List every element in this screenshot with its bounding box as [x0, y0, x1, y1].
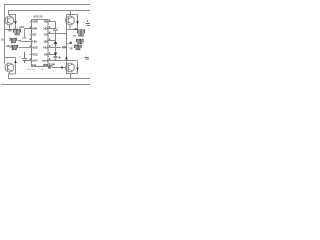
wire bottom of Q1 loop — [5, 29, 16, 31]
arrow Q1 — [14, 21, 16, 24]
wire Q1 source down — [9, 25, 11, 30]
wire Q2 source down — [69, 25, 71, 30]
transistor Q4 bottom-right wires — [67, 57, 78, 79]
svg-text:+5V: +5V — [19, 25, 24, 29]
junction cross — [58, 56, 61, 59]
bottom rails — [1, 79, 90, 85]
resistor R4 ladder — [77, 30, 85, 36]
capacitor C2 mid — [53, 29, 58, 31]
diode D2 down — [54, 53, 58, 56]
svg-text:4xx 1xx: 4xx 1xx — [27, 69, 36, 71]
wire bottom inner rail — [8, 78, 90, 80]
wire right drop from rail2 — [70, 11, 72, 15]
wire D2 cathode bar — [54, 55, 58, 57]
svg-text:HN: HN — [74, 28, 78, 31]
arrow Q2 — [76, 21, 79, 24]
pin number marks left — [30, 26, 31, 28]
diode D1 up — [54, 41, 58, 44]
wire second top rail — [8, 10, 90, 12]
svg-text:HIN: HIN — [32, 26, 36, 30]
wire Q2 left vertical long (phase node) — [66, 15, 68, 58]
resistor R3 ladder — [11, 45, 19, 49]
svg-text:1ar: 1ar — [44, 63, 48, 66]
capacitor C1 left polarized — [22, 52, 28, 63]
wire left edge vertical — [4, 5, 6, 64]
svg-text:VS: VS — [44, 52, 48, 56]
arrow Q3 — [14, 60, 16, 63]
arrow Q4 source — [76, 68, 79, 71]
diode D3 at phase node — [68, 41, 72, 44]
wire left drop from rail2 — [9, 11, 16, 30]
svg-text:VB: VB — [44, 39, 48, 43]
transistor Q1 top-left — [5, 16, 14, 25]
wire LO return to Q4 — [52, 66, 67, 68]
IC pin stubs left — [21, 22, 32, 61]
wire mid vertical — [55, 22, 57, 61]
wire bottom outer rail — [1, 84, 90, 86]
svg-text:1P: 1P — [70, 47, 73, 50]
resistor R6 ladder — [74, 45, 82, 49]
wire R3 to pin — [19, 47, 24, 49]
IC pin names left column — [32, 19, 39, 67]
svg-text:VB: VB — [44, 19, 48, 23]
svg-text:+: + — [83, 20, 85, 24]
pin number marks right — [49, 19, 50, 21]
IC pin stubs right — [48, 22, 67, 66]
wire Q4 bottom — [67, 57, 78, 79]
arrow Q4 gate — [65, 56, 68, 59]
wire Q3 bottom — [9, 72, 16, 79]
svg-text:1P0: 1P0 — [51, 63, 56, 66]
svg-text:HN: HN — [8, 30, 12, 33]
ground symbol mid-bottom — [54, 58, 58, 60]
resistor R1 ladder — [13, 29, 21, 35]
resistor R2 ladder — [10, 38, 18, 42]
wire D3 to phase node — [67, 43, 69, 45]
svg-text:LIN: LIN — [6, 45, 10, 48]
svg-text:LIN: LIN — [32, 39, 36, 43]
svg-text:com: com — [42, 58, 48, 62]
wire Q2 top link — [67, 15, 78, 17]
wire Q2 arrow line — [77, 15, 79, 30]
IC U1 body — [32, 20, 49, 67]
wire +5V drop — [23, 29, 27, 38]
text blob near LO — [48, 66, 51, 68]
svg-text:VDD: VDD — [32, 19, 38, 23]
wire Q4 top loop — [67, 61, 78, 74]
svg-text:1M: 1M — [62, 46, 65, 49]
wire R2 to pin — [18, 41, 21, 42]
transistor Q2 top-right — [66, 16, 75, 25]
transistor Q3 bottom-left — [5, 63, 14, 72]
wire V+ top rail — [4, 4, 90, 6]
junction dot — [61, 66, 63, 68]
svg-text:VS: VS — [44, 32, 48, 36]
svg-text:VSS: VSS — [32, 45, 37, 49]
transistor Q3 bottom-left wires — [5, 58, 16, 79]
IC pin names right column — [42, 19, 48, 67]
capacitor C3 electrolytic right — [86, 21, 91, 26]
svg-text:IR2110: IR2110 — [34, 15, 44, 19]
wire bottom of Q2 loop — [67, 29, 78, 31]
transistor Q4 bottom-right — [66, 63, 75, 72]
svg-text:SD: SD — [32, 32, 36, 36]
wire Q3 top loop — [5, 58, 16, 75]
svg-text:UU: UU — [76, 45, 80, 47]
svg-text:+: + — [19, 55, 21, 59]
capacitor C4 right lower — [85, 57, 89, 59]
resistor R5 ladder — [76, 39, 84, 43]
